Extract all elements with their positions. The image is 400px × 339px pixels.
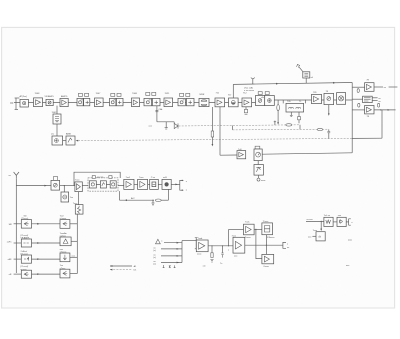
- svg-text:7xL.xx: 7xL.xx: [324, 215, 331, 217]
- crystal Y2: [78, 192, 80, 205]
- svg-text:7Lxxx: 7Lxxx: [263, 221, 270, 223]
- test point TP1: [252, 79, 254, 84]
- wire collector bus: [76, 214, 78, 273]
- filter FL13: [110, 181, 116, 188]
- wire squelch row: [220, 154, 237, 156]
- svg-text:xx xxx: xx xxx: [307, 219, 314, 221]
- svg-text:7xx1: 7xx1: [126, 177, 131, 179]
- wire squelch out: [262, 153, 352, 154]
- wire to C0: [16, 185, 51, 187]
- wire AGC line: [76, 140, 79, 142]
- wire U12 to AGC cap: [328, 105, 330, 114]
- resistor R2: [357, 89, 359, 93]
- capacitor C1 CAL: [156, 106, 158, 122]
- terminal J3: [195, 238, 197, 249]
- svg-text:xxB: xxB: [163, 177, 167, 179]
- wire line A: [179, 125, 301, 126]
- wire main IF chain: [14, 102, 256, 104]
- discriminator U15: [363, 96, 373, 102]
- node input connector J1: [15, 98, 17, 109]
- node mark 1: [163, 265, 165, 268]
- svg-text:(x): (x): [153, 250, 156, 252]
- terminal J2: [171, 183, 180, 185]
- wire drop D1: [211, 107, 213, 131]
- wire U27 out: [208, 245, 233, 247]
- oscillator U21: [63, 186, 65, 192]
- amplifier U16: [352, 109, 364, 111]
- crystal Y1 top: [303, 72, 310, 78]
- svg-text:XO: XO: [228, 94, 231, 96]
- wire LO feedback line: [233, 83, 352, 85]
- filter FL12: [100, 181, 106, 188]
- svg-text:7021: 7021: [165, 93, 171, 95]
- capacitor C6 in U12 drop: [328, 129, 330, 131]
- svg-text:AMB: AMB: [66, 132, 71, 135]
- legend arrow DC: [110, 269, 132, 271]
- resistor R5 on line A: [286, 124, 292, 126]
- capacitor C2 stub: [165, 122, 167, 128]
- wire drop D2: [219, 107, 221, 156]
- module MOD1 dashed enclosure: [88, 178, 118, 191]
- wire line B: [232, 126, 234, 130]
- wire U20 out: [60, 185, 75, 187]
- legend arrow AC: [110, 265, 132, 267]
- svg-text:(xx): (xx): [348, 240, 352, 242]
- resistor R1 hanging: [277, 105, 280, 111]
- terminal J4: [283, 242, 286, 248]
- wire tap to U14: [352, 86, 364, 88]
- wire AFC return: [119, 191, 121, 200]
- svg-text:MOTD: MOTD: [97, 177, 104, 179]
- capacitor C4 below U9: [245, 107, 247, 110]
- filter FL10: [257, 161, 259, 165]
- svg-text:AT(2xx): AT(2xx): [20, 95, 28, 98]
- svg-text:x xx xxxxx: x xx xxxxx: [244, 90, 255, 92]
- resistor R6 on line B: [317, 128, 322, 130]
- node mark 2: [169, 265, 170, 268]
- svg-text:(x): (x): [153, 257, 156, 259]
- ground below T1: [290, 112, 292, 115]
- resistor R3: [358, 103, 360, 107]
- wire FL9 down: [56, 124, 58, 136]
- filter pair FL7 FL8: [180, 93, 184, 96]
- wire audio bus: [181, 241, 183, 263]
- node mark 3: [174, 265, 176, 268]
- filter FL11: [89, 181, 96, 188]
- wire right chain segment: [274, 99, 352, 101]
- capacitor C7 stub: [211, 246, 213, 253]
- capacitor C5 below T1: [298, 112, 300, 117]
- filter FL9 7002: [56, 106, 58, 114]
- svg-text:xFx: xFx: [261, 97, 264, 99]
- wire U29 out: [254, 228, 262, 230]
- svg-text:VR AMPL: VR AMPL: [45, 95, 55, 98]
- resistor R7: [155, 199, 161, 201]
- wire enclosure links: [96, 184, 124, 185]
- svg-text:xxt: xxt: [203, 264, 206, 267]
- svg-text:7xxxAx: 7xxxAx: [60, 232, 68, 235]
- svg-text:7007: 7007: [96, 93, 102, 95]
- wire CAL branch: [157, 121, 174, 123]
- fuse F1: [211, 131, 214, 137]
- wire feed to X2: [256, 229, 262, 258]
- filter pair FL1 FL2: [78, 93, 82, 96]
- wire T1 taps: [282, 100, 284, 103]
- svg-text:7008: 7008: [132, 93, 138, 95]
- filter pair FL5 FL6: [146, 92, 150, 95]
- svg-text:MXR: MXR: [200, 94, 205, 96]
- diode CR1: [174, 123, 178, 128]
- ground G1: [152, 200, 153, 201]
- svg-text:xFx: xFx: [113, 100, 116, 102]
- svg-text:RF: RF: [10, 103, 14, 105]
- driver X2: [262, 254, 274, 263]
- wire X1 to X2: [265, 235, 267, 255]
- mixer U13: [337, 93, 346, 105]
- svg-text:3/5xxxx: 3/5xxxx: [267, 237, 275, 239]
- detector pair U10: [258, 92, 262, 95]
- mixer U20: [54, 176, 58, 180]
- wire riser to U29: [228, 229, 230, 245]
- capacitor C8 tick on line A: [274, 121, 276, 125]
- node E1: [258, 175, 260, 178]
- node delta marker: [156, 239, 161, 244]
- filter pair FL3 FL4: [111, 93, 115, 96]
- svg-text:A/C: A/C: [131, 197, 135, 200]
- svg-text:7xxxx: 7xxxx: [245, 237, 251, 239]
- resistor R8 stub: [222, 246, 224, 253]
- svg-text:AMPD: AMPD: [61, 95, 68, 98]
- wire bypass bridge: [74, 172, 120, 185]
- wire U28 out: [245, 244, 283, 246]
- svg-text:xRF: xRF: [8, 259, 13, 261]
- wire Y drop: [320, 221, 322, 229]
- svg-text:(x): (x): [153, 263, 156, 265]
- node main vertical bus: [351, 83, 353, 153]
- wire U22 out: [82, 185, 88, 187]
- svg-text:7xxxx: 7xxxx: [263, 266, 269, 268]
- wire antenna bus: [15, 179, 17, 273]
- svg-text:7048: 7048: [35, 93, 41, 95]
- meter M1: [255, 146, 260, 149]
- terminal J5: [346, 221, 348, 223]
- resistor R4: [378, 103, 380, 107]
